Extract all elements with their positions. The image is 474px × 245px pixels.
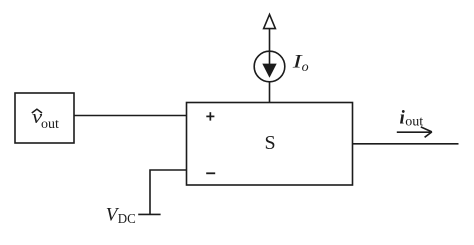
current source I_o circle <box>254 51 285 82</box>
label plus input <box>206 112 214 120</box>
current source arrow filled triangle <box>262 64 276 78</box>
label v_out hat <box>32 106 59 132</box>
label i_out <box>400 107 424 129</box>
arrowhead open triangle top <box>264 15 276 29</box>
wire v_out to S plus input <box>74 115 187 117</box>
svg-text:o: o <box>302 60 309 75</box>
svg-text:out: out <box>405 114 423 129</box>
label V_DC <box>106 204 136 227</box>
i_out arrow line <box>397 131 431 133</box>
wire V_DC to S minus input <box>150 170 187 214</box>
block v_out source <box>15 93 74 143</box>
wire current source to S top <box>269 28 271 103</box>
svg-text:out: out <box>41 117 59 132</box>
label I_o <box>292 50 309 75</box>
V_DC terminal bar <box>138 213 160 215</box>
svg-text:DC: DC <box>118 212 136 227</box>
label minus input <box>206 172 215 174</box>
block S <box>187 103 353 186</box>
wire S output right <box>353 143 459 145</box>
i_out arrowhead <box>421 127 432 137</box>
svg-text:S: S <box>264 132 275 154</box>
current source arrow stem <box>269 52 271 68</box>
